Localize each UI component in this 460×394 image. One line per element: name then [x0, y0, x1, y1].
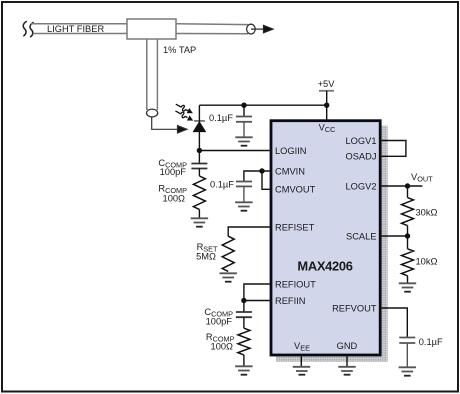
wire REFIOUT: [244, 284, 270, 301]
wire VEE to ground: [300, 356, 302, 366]
svg-text:VCC: VCC: [319, 123, 336, 135]
svg-text:CMVOUT: CMVOUT: [275, 185, 316, 195]
ground RCOMP bottom: [235, 366, 252, 374]
ground GND: [338, 367, 355, 375]
fiber output arrow: [251, 25, 273, 32]
svg-text:MAX4206: MAX4206: [297, 259, 352, 274]
IC shadow: [276, 126, 388, 362]
wire VOUT to 30k: [407, 186, 409, 198]
wire GND to ground: [346, 356, 348, 366]
svg-text:10kΩ: 10kΩ: [416, 257, 438, 267]
svg-text:REFISET: REFISET: [275, 222, 315, 232]
svg-text:VOUT: VOUT: [411, 172, 433, 184]
resistor RSET: [222, 236, 234, 271]
node REFIIN junction: [241, 298, 246, 303]
ground RCOMP top: [191, 218, 208, 226]
svg-text:REFIOUT: REFIOUT: [275, 279, 316, 289]
node LOGIIN junction: [197, 148, 202, 153]
wire top VCC rail: [199, 104, 326, 106]
wire LOGV1-OSADJ loop: [382, 141, 406, 157]
light arrows into photodiode: [175, 104, 193, 120]
svg-text:OSADJ: OSADJ: [346, 152, 377, 162]
ground CMV cap: [235, 202, 252, 210]
wire LOGV2 to VOUT: [382, 185, 423, 187]
svg-text:100Ω: 100Ω: [211, 342, 234, 352]
wire 10k to ground: [407, 276, 409, 283]
svg-text:VEE: VEE: [294, 341, 310, 353]
fiber break squiggle: [23, 22, 33, 37]
wire REFISET: [228, 227, 270, 236]
svg-text:REFVOUT: REFVOUT: [332, 303, 377, 313]
svg-text:+5V: +5V: [318, 79, 336, 89]
capacitor C1 0.1uF top: [236, 105, 252, 137]
svg-text:LOGIIN: LOGIIN: [275, 146, 307, 156]
svg-text:LIGHT FIBER: LIGHT FIBER: [47, 24, 104, 34]
+5V terminal: [318, 79, 336, 120]
svg-text:GND: GND: [337, 341, 358, 351]
capacitor C3 0.1uF refvout: [399, 338, 415, 368]
wire REFVOUT: [382, 308, 408, 337]
resistor RCOMP top: [193, 176, 205, 209]
wire SCALE: [382, 235, 408, 237]
svg-text:0.1µF: 0.1µF: [210, 180, 234, 190]
ground 10k: [399, 283, 416, 291]
capacitor CCOMP top: [191, 151, 207, 177]
wire REFIIN: [244, 300, 270, 302]
svg-text:100pF: 100pF: [206, 317, 233, 327]
svg-text:5MΩ: 5MΩ: [196, 252, 216, 262]
capacitor C2 0.1uF CMV: [236, 182, 252, 203]
wire fiber top line: [31, 24, 248, 34]
svg-text:0.1µF: 0.1µF: [419, 337, 443, 347]
wire RCOMP to ground: [198, 209, 200, 218]
resistor R2 10k: [402, 249, 414, 276]
ground top cap: [235, 137, 252, 145]
wire CMVIN: [244, 171, 270, 181]
fiber output end ellipse: [247, 24, 256, 34]
photodiode D1: [193, 121, 205, 132]
wire photodiode vertical: [198, 105, 200, 150]
svg-text:100Ω: 100Ω: [163, 194, 186, 204]
svg-text:LOGV1: LOGV1: [345, 136, 376, 146]
wire fiber tap vertical: [147, 39, 158, 110]
svg-text:REFIIN: REFIIN: [275, 296, 305, 306]
node SCALE junction: [405, 233, 410, 238]
svg-text:CMVIN: CMVIN: [275, 166, 305, 176]
node VOUT junction: [405, 183, 410, 188]
ground VEE: [293, 367, 310, 375]
fiber tap end ellipse: [147, 109, 158, 117]
wire 30k to SCALE: [407, 226, 409, 249]
svg-text:SCALE: SCALE: [346, 231, 377, 241]
node VCC junction: [324, 103, 329, 108]
node top cap junction: [241, 103, 246, 108]
tap coupler box: [127, 19, 176, 39]
svg-text:LOGV2: LOGV2: [345, 181, 376, 191]
wire CMVOUT link: [262, 171, 270, 189]
capacitor CCOMP bottom: [236, 301, 252, 329]
wire RCOMP bottom to ground: [243, 355, 245, 366]
wire LOGIIN: [199, 150, 269, 152]
node CMVIN junction: [259, 168, 264, 173]
svg-text:0.1µF: 0.1µF: [209, 113, 233, 123]
resistor R1 30k: [402, 198, 414, 226]
resistor RCOMP bottom: [238, 328, 250, 355]
op-amp U1 MAX4206 body: [271, 121, 380, 355]
ground refvout cap: [399, 367, 416, 375]
svg-text:1% TAP: 1% TAP: [163, 45, 196, 55]
svg-text:100pF: 100pF: [160, 167, 187, 177]
ground RSET: [220, 273, 237, 281]
svg-text:30kΩ: 30kΩ: [416, 208, 438, 218]
arrow fiber to photodiode: [152, 117, 187, 133]
